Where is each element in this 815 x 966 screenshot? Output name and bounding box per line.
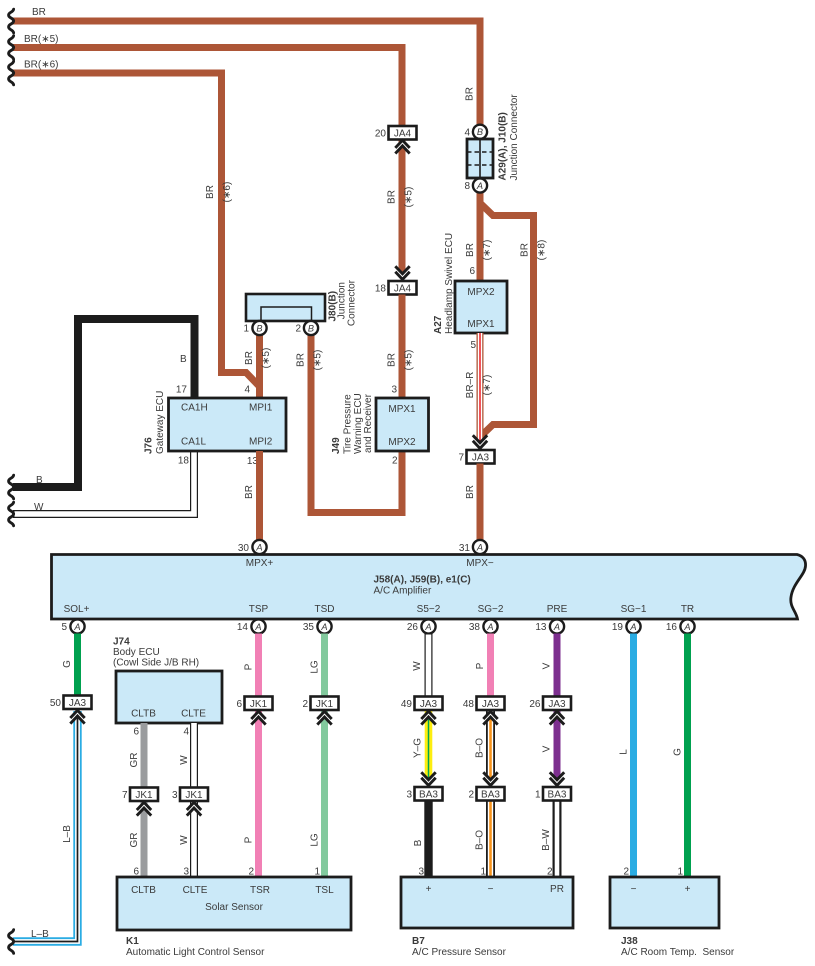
chevron below JA3-50 bbox=[70, 710, 84, 723]
svg-text:LG: LG bbox=[310, 660, 321, 674]
svg-text:30: 30 bbox=[238, 543, 250, 554]
sensor K1 Solar Sensor box bbox=[117, 877, 351, 930]
svg-text:CLTB: CLTB bbox=[131, 709, 156, 720]
wire BR (*7) junction to A27 MPX2 bbox=[477, 193, 484, 282]
svg-text:CA1H: CA1H bbox=[181, 403, 208, 414]
pin 38 circle A bbox=[483, 619, 497, 633]
svg-text:BR: BR bbox=[465, 87, 476, 101]
svg-text:W: W bbox=[34, 502, 44, 513]
svg-text:CLTE: CLTE bbox=[183, 885, 208, 896]
svg-text:MPX+: MPX+ bbox=[246, 558, 274, 569]
connector BA3 pin 3 bbox=[415, 787, 443, 801]
svg-text:2: 2 bbox=[302, 699, 308, 710]
svg-text:J76: J76 bbox=[144, 437, 155, 454]
pin 8 circle A of junction connector bbox=[473, 178, 487, 192]
svg-text:A: A bbox=[254, 622, 261, 632]
svg-text:4: 4 bbox=[244, 385, 250, 396]
ECU A27 Headlamp Swivel box bbox=[455, 281, 507, 333]
svg-text:W: W bbox=[179, 835, 190, 845]
svg-text:20: 20 bbox=[375, 129, 387, 140]
junction connector A29(A) J10(B) grid bbox=[467, 139, 493, 178]
svg-text:6: 6 bbox=[236, 699, 242, 710]
svg-text:+: + bbox=[685, 884, 691, 895]
svg-text:A: A bbox=[553, 622, 560, 632]
connector JK1 pin 3 bbox=[180, 788, 208, 802]
wire L-B down to left edge bbox=[13, 711, 78, 942]
svg-text:W: W bbox=[412, 661, 423, 671]
svg-text:JA4: JA4 bbox=[394, 129, 412, 140]
svg-text:(∗6): (∗6) bbox=[222, 182, 233, 203]
svg-text:(∗5): (∗5) bbox=[404, 187, 415, 208]
svg-text:MPX2: MPX2 bbox=[467, 287, 495, 298]
svg-text:Body ECU: Body ECU bbox=[113, 647, 160, 658]
svg-text:BR–R: BR–R bbox=[465, 372, 476, 399]
svg-text:5: 5 bbox=[470, 340, 476, 351]
svg-text:L–B: L–B bbox=[62, 825, 73, 843]
svg-text:B7: B7 bbox=[412, 936, 425, 947]
svg-text:A: A bbox=[424, 622, 431, 632]
svg-text:PR: PR bbox=[550, 884, 564, 895]
pin 13 circle A bbox=[550, 619, 564, 633]
connector JA3 pin 50 bbox=[64, 696, 92, 710]
ECU J49 Tire Pressure box bbox=[376, 398, 429, 451]
svg-text:TSL: TSL bbox=[315, 885, 334, 896]
ECU J74 Body ECU box bbox=[116, 671, 222, 723]
svg-text:13: 13 bbox=[535, 622, 547, 633]
svg-text:Solar Sensor: Solar Sensor bbox=[205, 902, 263, 913]
chevron below JK1-2 bbox=[317, 711, 331, 724]
svg-text:JA3: JA3 bbox=[69, 698, 87, 709]
svg-text:MPX1: MPX1 bbox=[467, 319, 495, 330]
sensor B7 A/C Pressure Sensor box bbox=[401, 877, 573, 928]
svg-text:CLTE: CLTE bbox=[181, 709, 206, 720]
svg-text:4: 4 bbox=[464, 128, 470, 139]
wire B (black) from left edge to J76 CA1H bbox=[13, 319, 195, 487]
svg-text:TSD: TSD bbox=[315, 604, 335, 615]
svg-text:(∗7): (∗7) bbox=[482, 375, 493, 396]
svg-text:48: 48 bbox=[463, 699, 475, 710]
svg-text:3: 3 bbox=[172, 790, 178, 801]
svg-text:38: 38 bbox=[469, 622, 481, 633]
svg-text:BR: BR bbox=[520, 243, 531, 257]
chevron above BA3-3 bbox=[421, 772, 435, 788]
wire BR(*5) feed to JA4-20 bbox=[13, 48, 402, 128]
svg-text:MPX1: MPX1 bbox=[388, 404, 416, 415]
svg-text:Connector: Connector bbox=[347, 279, 358, 326]
svg-text:B: B bbox=[256, 323, 262, 333]
svg-text:(∗5): (∗5) bbox=[313, 350, 324, 371]
svg-text:(∗7): (∗7) bbox=[482, 240, 493, 261]
chevron below JK1-6 bbox=[251, 711, 265, 724]
svg-text:26: 26 bbox=[407, 622, 419, 633]
svg-text:7: 7 bbox=[458, 453, 464, 464]
svg-text:JK1: JK1 bbox=[316, 699, 334, 710]
svg-text:7: 7 bbox=[122, 790, 128, 801]
svg-text:6: 6 bbox=[469, 266, 475, 277]
ECU band J58 J59 e1 A/C Amplifier bbox=[52, 555, 806, 620]
wire G amplifier TR to J38 bbox=[684, 634, 691, 878]
svg-text:A: A bbox=[255, 542, 262, 552]
svg-text:B–O: B–O bbox=[475, 830, 486, 850]
svg-text:2: 2 bbox=[392, 456, 398, 467]
svg-text:Automatic Light Control Sensor: Automatic Light Control Sensor bbox=[126, 947, 265, 958]
svg-text:−: − bbox=[488, 884, 494, 895]
wire LG JK1-2 to solar TSL bbox=[321, 710, 328, 877]
svg-text:A/C Pressure Sensor: A/C Pressure Sensor bbox=[412, 947, 507, 958]
svg-text:8: 8 bbox=[464, 181, 470, 192]
svg-text:−: − bbox=[631, 884, 637, 895]
pin 14 circle A bbox=[251, 619, 265, 633]
svg-text:BR: BR bbox=[296, 353, 307, 367]
svg-text:B: B bbox=[413, 839, 424, 846]
svg-text:BR: BR bbox=[32, 7, 46, 18]
svg-text:49: 49 bbox=[401, 699, 413, 710]
svg-text:4: 4 bbox=[183, 727, 189, 738]
wire B-W BA3-1 to B7 PR bbox=[553, 800, 562, 877]
svg-text:3: 3 bbox=[391, 385, 397, 396]
wire P amplifier SG-2 to JA3-48 bbox=[487, 634, 494, 698]
svg-text:G: G bbox=[62, 660, 73, 668]
svg-text:BR: BR bbox=[387, 190, 398, 204]
wire BR (*8) bypass branch of A27 bbox=[480, 203, 534, 437]
connector BA3 pin 2 bbox=[477, 787, 505, 801]
junction connector J80(B) bbox=[246, 294, 325, 321]
wire LG amplifier TSD to JK1-2 bbox=[321, 634, 328, 698]
svg-text:2: 2 bbox=[468, 790, 474, 801]
connector JA3 pin 48 bbox=[477, 697, 505, 711]
wire GR J74 CLTB to JK1-7 bbox=[141, 723, 148, 788]
svg-text:W: W bbox=[179, 755, 190, 765]
wire P amplifier TSP to JK1-6 bbox=[255, 634, 262, 698]
svg-text:Headlamp Swivel ECU: Headlamp Swivel ECU bbox=[444, 233, 455, 334]
wire B-O BA3-2 to B7 minus bbox=[486, 800, 495, 877]
svg-text:A: A bbox=[629, 622, 636, 632]
svg-text:PRE: PRE bbox=[547, 604, 568, 615]
svg-text:6: 6 bbox=[133, 727, 139, 738]
svg-text:GR: GR bbox=[129, 753, 140, 768]
svg-text:31: 31 bbox=[459, 543, 471, 554]
svg-text:BR: BR bbox=[244, 351, 255, 365]
svg-text:J49: J49 bbox=[331, 437, 342, 454]
svg-text:JK1: JK1 bbox=[135, 790, 153, 801]
svg-text:JA3: JA3 bbox=[482, 699, 500, 710]
svg-text:MPI1: MPI1 bbox=[249, 403, 273, 414]
svg-text:JA3: JA3 bbox=[472, 453, 490, 464]
connector JA3 pin 7 bbox=[467, 450, 495, 464]
svg-text:LG: LG bbox=[310, 833, 321, 847]
pin 4 circle B of junction connector bbox=[473, 125, 487, 139]
sensor J38 A/C Room Temp Sensor box bbox=[610, 877, 719, 928]
pin 35 circle A bbox=[317, 619, 331, 633]
svg-text:A: A bbox=[73, 622, 80, 632]
svg-text:BR: BR bbox=[387, 353, 398, 367]
svg-text:B–O: B–O bbox=[475, 738, 486, 758]
svg-text:1: 1 bbox=[535, 790, 541, 801]
svg-text:+: + bbox=[426, 884, 432, 895]
wire GR JK1-7 to solar CLTB bbox=[141, 801, 148, 877]
wire BR (*5) between JA4-20 and JA4-18 bbox=[399, 139, 406, 281]
svg-text:BA3: BA3 bbox=[419, 790, 438, 801]
wire L amplifier SG-1 to J38 bbox=[630, 634, 637, 878]
chevron below JA3-26 bbox=[550, 711, 564, 724]
pin 1 circle B of J80 bbox=[252, 321, 266, 335]
chevron above JA4-18 bbox=[395, 266, 409, 282]
wire BR JA3-7 to amplifier pin 31 bbox=[477, 464, 484, 542]
svg-text:A: A bbox=[476, 542, 483, 552]
svg-text:B: B bbox=[477, 127, 483, 137]
wire BR (battery feed, top) bbox=[13, 21, 480, 125]
wire BR-R (*7) A27 MPX1 to JA3-7 bbox=[477, 333, 484, 450]
svg-text:Tire Pressure: Tire Pressure bbox=[343, 394, 354, 454]
wire G amplifier pin5 to JA3-50 bbox=[74, 634, 81, 697]
svg-text:BR: BR bbox=[465, 485, 476, 499]
wire BR J76 MPI2 to amplifier pin 30 bbox=[256, 451, 263, 541]
svg-text:A: A bbox=[320, 622, 327, 632]
svg-text:L–B: L–B bbox=[31, 929, 49, 940]
svg-text:BR(∗6): BR(∗6) bbox=[24, 60, 59, 71]
svg-text:BR: BR bbox=[244, 485, 255, 499]
svg-text:BA3: BA3 bbox=[548, 790, 567, 801]
wire Y-G JA3-49 to BA3-3 bbox=[425, 710, 433, 788]
svg-text:B: B bbox=[36, 475, 43, 486]
svg-text:V: V bbox=[542, 662, 553, 669]
svg-text:(∗5): (∗5) bbox=[404, 350, 415, 371]
wire BR (*5) JA4-18 to J49 MPX1 bbox=[399, 295, 406, 400]
svg-text:L: L bbox=[619, 749, 630, 755]
svg-text:14: 14 bbox=[237, 622, 249, 633]
svg-text:G: G bbox=[673, 748, 684, 756]
svg-text:5: 5 bbox=[61, 622, 67, 633]
svg-text:3: 3 bbox=[406, 790, 412, 801]
svg-text:V: V bbox=[542, 745, 553, 752]
svg-text:16: 16 bbox=[666, 622, 678, 633]
svg-text:18: 18 bbox=[375, 284, 387, 295]
svg-text:SG−2: SG−2 bbox=[478, 604, 504, 615]
svg-text:TR: TR bbox=[681, 604, 694, 615]
svg-text:TSR: TSR bbox=[250, 885, 270, 896]
pin 2 circle B of J80 bbox=[304, 321, 318, 335]
wire B BA3-3 to B7 plus bbox=[424, 800, 432, 877]
chevron below JA3-48 bbox=[483, 711, 497, 724]
wire W JK1-3 to solar CLTE bbox=[190, 801, 198, 877]
svg-text:MPX−: MPX− bbox=[466, 558, 494, 569]
svg-text:P: P bbox=[244, 836, 255, 843]
svg-text:MPX2: MPX2 bbox=[388, 437, 416, 448]
svg-text:BR: BR bbox=[205, 185, 216, 199]
svg-text:J58(A), J59(B), e1(C): J58(A), J59(B), e1(C) bbox=[374, 575, 471, 586]
svg-text:35: 35 bbox=[303, 622, 315, 633]
svg-text:CA1L: CA1L bbox=[181, 437, 206, 448]
svg-text:A: A bbox=[476, 181, 483, 191]
wire BR (*5) J80 pin2 loop to J49 MPX2 bbox=[311, 333, 402, 513]
svg-text:P: P bbox=[244, 663, 255, 670]
pin 16 circle A bbox=[680, 619, 694, 633]
chevron below JK1-7 bbox=[137, 802, 151, 815]
pin 5 circle A bbox=[70, 619, 84, 633]
connector JA3 pin 26 bbox=[543, 697, 571, 711]
svg-text:JK1: JK1 bbox=[185, 790, 203, 801]
svg-text:50: 50 bbox=[50, 698, 62, 709]
wire V JA3-26 to BA3-1 bbox=[554, 710, 561, 788]
svg-text:TSP: TSP bbox=[249, 604, 269, 615]
svg-text:A/C Amplifier: A/C Amplifier bbox=[374, 586, 432, 597]
svg-text:B: B bbox=[180, 354, 187, 365]
svg-text:Gateway ECU: Gateway ECU bbox=[155, 391, 166, 454]
wire W amplifier S5-2 to JA3-49 bbox=[425, 634, 433, 698]
svg-text:S5−2: S5−2 bbox=[417, 604, 441, 615]
svg-text:18: 18 bbox=[178, 456, 190, 467]
svg-text:B–W: B–W bbox=[541, 829, 552, 851]
connector JA3 pin 49 bbox=[415, 697, 443, 711]
chevron above JA3-7 bbox=[473, 435, 487, 451]
svg-text:JA3: JA3 bbox=[420, 699, 438, 710]
continuation squiggle B bbox=[9, 475, 14, 499]
svg-text:CLTB: CLTB bbox=[131, 885, 156, 896]
svg-text:26: 26 bbox=[529, 699, 541, 710]
connector JK1 pin 2 bbox=[311, 697, 339, 711]
svg-text:1: 1 bbox=[243, 324, 249, 335]
svg-text:A: A bbox=[486, 622, 493, 632]
wire B-O JA3-48 to BA3-2 bbox=[486, 710, 495, 788]
svg-text:JA4: JA4 bbox=[394, 284, 412, 295]
chevron below JA4-20 bbox=[395, 140, 409, 153]
svg-text:B: B bbox=[308, 323, 314, 333]
continuation squiggle L-B bbox=[9, 930, 14, 954]
pin 19 circle A bbox=[626, 619, 640, 633]
svg-text:(∗5): (∗5) bbox=[261, 348, 272, 369]
connector JK1 pin 6 bbox=[245, 697, 273, 711]
svg-text:JK1: JK1 bbox=[250, 699, 268, 710]
continuation squiggle BR(*6) bbox=[9, 61, 14, 85]
wire P JK1-6 to solar TSR bbox=[255, 710, 262, 877]
pin 26 circle A bbox=[421, 619, 435, 633]
svg-text:K1: K1 bbox=[126, 936, 139, 947]
svg-text:(∗8): (∗8) bbox=[537, 240, 548, 261]
pin 30 circle A amplifier bbox=[252, 540, 266, 554]
svg-text:J74: J74 bbox=[113, 637, 130, 648]
wire W J74 CLTE to JK1-3 bbox=[190, 723, 198, 788]
svg-text:17: 17 bbox=[176, 385, 188, 396]
connector JK1 pin 7 bbox=[130, 788, 158, 802]
wire BR(*6) feed to J76 MPI1 bbox=[13, 73, 260, 399]
svg-text:P: P bbox=[475, 662, 486, 669]
chevron below JK1-3 bbox=[187, 802, 201, 815]
svg-text:A/C Room Temp. Sensor: A/C Room Temp. Sensor bbox=[621, 947, 735, 958]
ECU J76 Gateway box bbox=[169, 398, 287, 451]
connector BA3 pin 1 bbox=[543, 787, 571, 801]
svg-text:Y–G: Y–G bbox=[413, 738, 424, 758]
svg-text:MPI2: MPI2 bbox=[249, 437, 273, 448]
svg-text:J38: J38 bbox=[621, 936, 638, 947]
connector JA4 pin 20 bbox=[389, 126, 417, 140]
continuation squiggle W bbox=[9, 502, 14, 526]
connector JA4 pin 18 bbox=[389, 281, 417, 295]
wire BR (*5) J80 pin1 to J76 MPI1 bbox=[256, 333, 263, 399]
chevron below JA3-49 bbox=[421, 711, 435, 724]
svg-text:SOL+: SOL+ bbox=[64, 604, 90, 615]
chevron above BA3-2 bbox=[483, 772, 497, 788]
chevron above BA3-1 bbox=[550, 772, 564, 788]
svg-text:BR(∗5): BR(∗5) bbox=[24, 34, 59, 45]
svg-text:Junction Connector: Junction Connector bbox=[509, 94, 520, 181]
svg-text:A: A bbox=[683, 622, 690, 632]
continuation squiggle BR(*5) bbox=[9, 36, 14, 60]
svg-text:19: 19 bbox=[612, 622, 624, 633]
svg-text:A29(A), J10(B): A29(A), J10(B) bbox=[498, 112, 509, 180]
wire W (white) from left edge to J76 CA1L bbox=[13, 450, 194, 514]
svg-text:and Receiver: and Receiver bbox=[363, 393, 374, 453]
wire V amplifier PRE to JA3-26 bbox=[554, 634, 561, 698]
svg-text:A27: A27 bbox=[433, 315, 444, 334]
svg-text:BR: BR bbox=[465, 243, 476, 257]
svg-text:BA3: BA3 bbox=[481, 790, 500, 801]
svg-text:2: 2 bbox=[295, 324, 301, 335]
svg-text:SG−1: SG−1 bbox=[621, 604, 647, 615]
continuation squiggle BR bbox=[9, 9, 14, 33]
svg-text:JA3: JA3 bbox=[548, 699, 566, 710]
svg-text:(Cowl Side J/B RH): (Cowl Side J/B RH) bbox=[113, 658, 199, 669]
svg-text:GR: GR bbox=[129, 833, 140, 848]
pin 31 circle A amplifier bbox=[473, 540, 487, 554]
